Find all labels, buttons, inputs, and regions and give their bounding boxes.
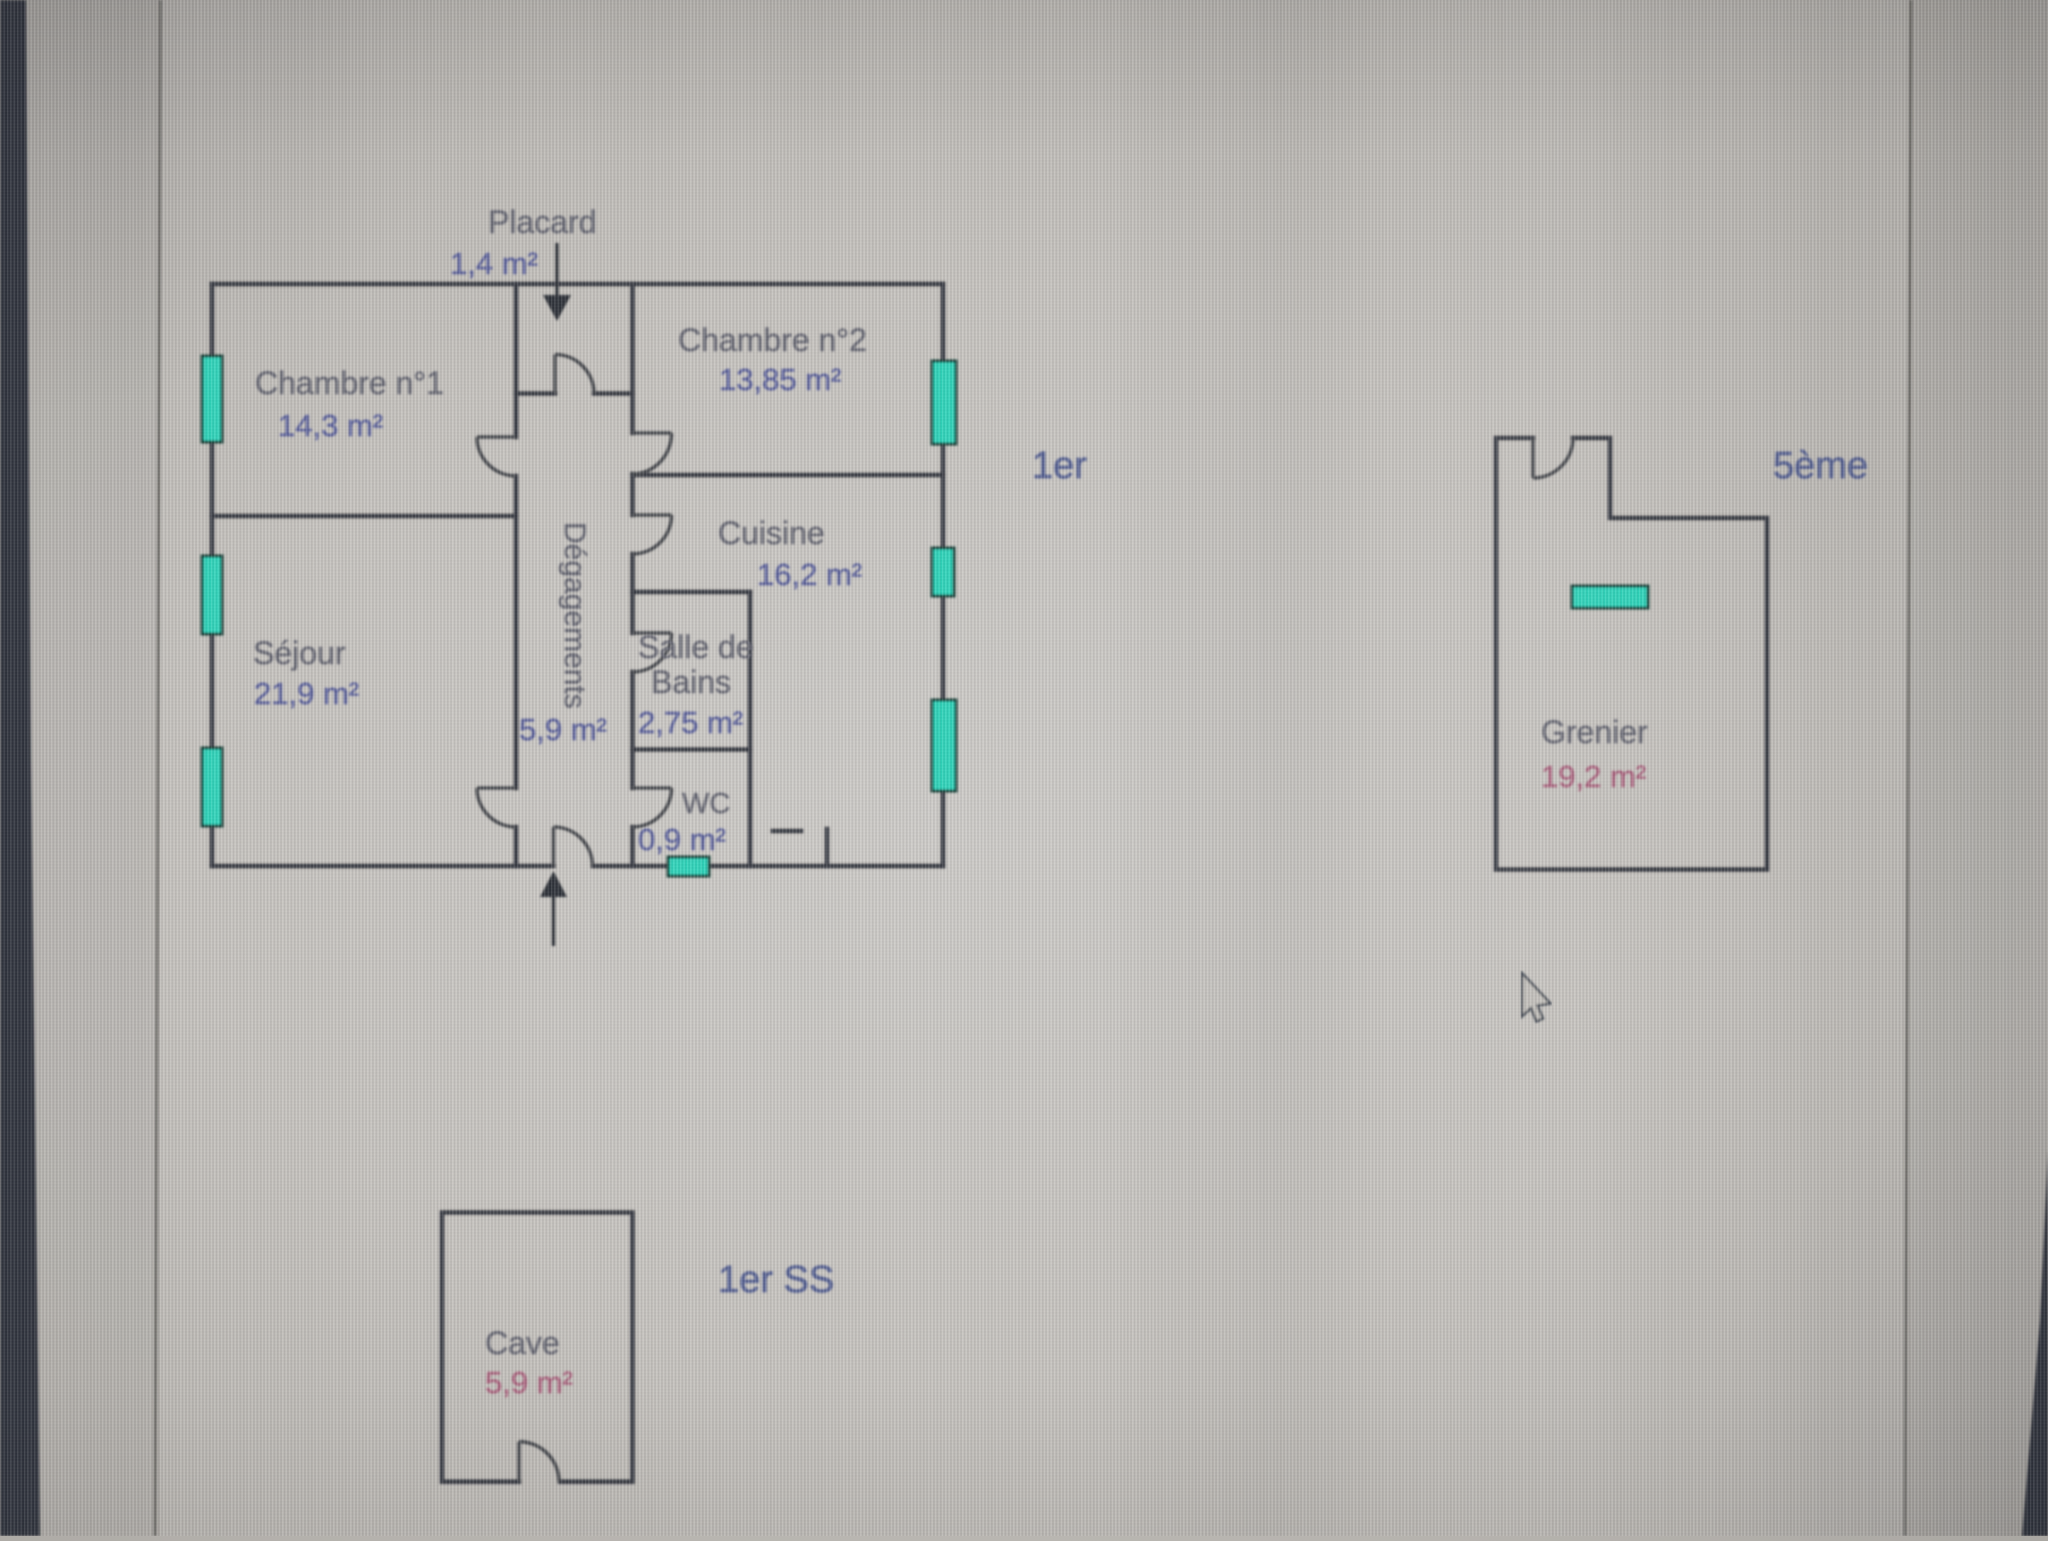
- floor labels (dark blue): [718, 445, 1868, 1301]
- door chambre2: [633, 431, 672, 435]
- window cuisine lower (right wall): [932, 700, 956, 791]
- outer right wall: [941, 284, 946, 866]
- outer left wall: [210, 284, 215, 866]
- mouse cursor: [1522, 973, 1551, 1022]
- entrance arrow (up): [552, 896, 555, 946]
- page margins (outside sheet borders slightly darker): [0, 0, 160, 1536]
- chambre2 / cuisine divider: [633, 473, 944, 478]
- placard bottom wall: [516, 391, 555, 396]
- door placard: [553, 355, 557, 394]
- window sejour lower (left wall): [202, 748, 222, 826]
- doors: leaf + quarter arc: [477, 355, 672, 867]
- dark band bottom-right corner: [2022, 1150, 2048, 1536]
- window sejour upper (left wall): [202, 556, 222, 634]
- cave door: [517, 1442, 521, 1482]
- outer top wall: [212, 282, 943, 287]
- room names (grey): [253, 204, 1648, 1361]
- placard arrow (down): [555, 243, 558, 296]
- grenier door: [1531, 438, 1535, 478]
- corridor right wall segments: [630, 284, 635, 433]
- areas (pink): [485, 759, 1646, 1400]
- small tick + stub right of WC: [773, 829, 801, 834]
- window cuisine upper (right wall): [932, 548, 954, 596]
- window chambre1 (left wall): [202, 356, 222, 442]
- door cuisine: [633, 513, 672, 517]
- dark band left edge of photo: [0, 0, 40, 1536]
- entry arrows: [540, 243, 571, 946]
- salle de bains right wall: [748, 592, 753, 866]
- outer bottom wall (gap = entrance door): [212, 864, 554, 869]
- salle de bains / wc divider: [633, 747, 751, 752]
- window wc (bottom wall): [668, 857, 709, 876]
- door wc: [633, 786, 672, 790]
- areas (blue): [254, 246, 862, 857]
- walls: [212, 284, 943, 866]
- door entrance: [552, 827, 556, 866]
- door salle de bains: [633, 631, 672, 635]
- window chambre2 (right wall): [932, 361, 956, 444]
- chambre1 / sejour divider: [212, 514, 516, 519]
- corridor left wall segments: [514, 284, 519, 437]
- door sejour: [477, 786, 516, 790]
- salle de bains top wall: [633, 590, 751, 595]
- grenier window: [1572, 586, 1648, 608]
- door chambre1: [477, 435, 516, 439]
